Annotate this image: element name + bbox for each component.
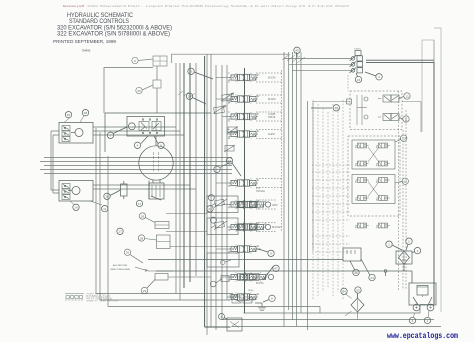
svg-text:1: 1 <box>427 319 429 323</box>
svg-text:30: 30 <box>105 195 109 199</box>
svg-text:2: 2 <box>408 240 410 244</box>
svg-text:10: 10 <box>402 137 406 141</box>
svg-text:13: 13 <box>405 94 409 98</box>
svg-text:SWING MOTOR: SWING MOTOR <box>229 295 243 297</box>
svg-text:GRAVITY CASE RETURN: GRAVITY CASE RETURN <box>87 299 119 302</box>
svg-text:54: 54 <box>342 290 346 294</box>
svg-text:17: 17 <box>118 230 122 234</box>
svg-text:ARM: ARM <box>272 204 277 207</box>
svg-text:55: 55 <box>356 288 360 292</box>
svg-text:C9600: C9600 <box>354 49 361 51</box>
svg-text:BUCKET: BUCKET <box>272 226 282 229</box>
svg-text:3: 3 <box>417 249 419 253</box>
svg-text:4: 4 <box>378 75 380 79</box>
svg-text:AUX RETURN: AUX RETURN <box>113 264 128 267</box>
svg-text:TM490: TM490 <box>82 49 91 53</box>
svg-text:8: 8 <box>271 297 273 301</box>
svg-text:BOOM: BOOM <box>256 282 263 285</box>
svg-text:8: 8 <box>160 144 162 148</box>
svg-text:12: 12 <box>228 159 232 163</box>
svg-text:5: 5 <box>221 315 223 319</box>
svg-text:47: 47 <box>274 267 278 271</box>
svg-text:PANEL: PANEL <box>248 289 254 292</box>
svg-text:45: 45 <box>137 89 141 93</box>
svg-text:6: 6 <box>134 59 136 63</box>
svg-text:4: 4 <box>137 144 139 148</box>
svg-text:322 EXCAVATOR (S/N 5I78II00I &: 322 EXCAVATOR (S/N 5I78II00I & ABOVE) <box>57 30 170 37</box>
svg-text:DRIVE: DRIVE <box>268 116 276 119</box>
svg-text:SLEW: SLEW <box>268 133 276 136</box>
svg-text:1: 1 <box>388 243 390 247</box>
svg-text:11: 11 <box>404 117 407 121</box>
svg-text:9: 9 <box>270 252 272 256</box>
svg-text:11: 11 <box>103 207 106 211</box>
svg-text:30: 30 <box>335 106 339 110</box>
svg-text:BLANK: BLANK <box>268 98 276 101</box>
svg-text:4: 4 <box>412 319 414 323</box>
svg-text:16: 16 <box>403 180 407 184</box>
svg-text:(ZERO PRESSURE): (ZERO PRESSURE) <box>110 269 130 271</box>
svg-text:29: 29 <box>143 289 147 293</box>
svg-text:Excav.pdf: Excav.pdf <box>63 4 84 8</box>
svg-text:43: 43 <box>357 78 361 82</box>
svg-text:7: 7 <box>110 134 112 138</box>
svg-text:34: 34 <box>370 276 374 280</box>
svg-text:44: 44 <box>208 207 212 211</box>
svg-text:48: 48 <box>84 111 88 115</box>
svg-text:BOOM: BOOM <box>268 77 275 80</box>
svg-text:www.epcatalogs.com: www.epcatalogs.com <box>387 331 458 341</box>
svg-text:PRINTED SEPTEMBER, 1999: PRINTED SEPTEMBER, 1999 <box>53 39 117 44</box>
svg-text:20: 20 <box>188 95 192 99</box>
svg-text:26: 26 <box>141 214 145 218</box>
svg-text:36: 36 <box>354 271 358 275</box>
svg-text:46: 46 <box>67 113 71 117</box>
svg-text:3: 3 <box>190 70 192 74</box>
svg-text:49: 49 <box>295 49 299 53</box>
svg-text:28: 28 <box>140 236 144 240</box>
svg-text:47: 47 <box>138 202 142 206</box>
svg-text:TRAVEL: TRAVEL <box>256 190 266 193</box>
svg-text:14: 14 <box>74 206 78 210</box>
svg-text:320 Standard Part - Liquid Par: 320 Standard Part - Liquid Parts 514088 … <box>87 4 350 8</box>
svg-text:26: 26 <box>126 251 130 255</box>
